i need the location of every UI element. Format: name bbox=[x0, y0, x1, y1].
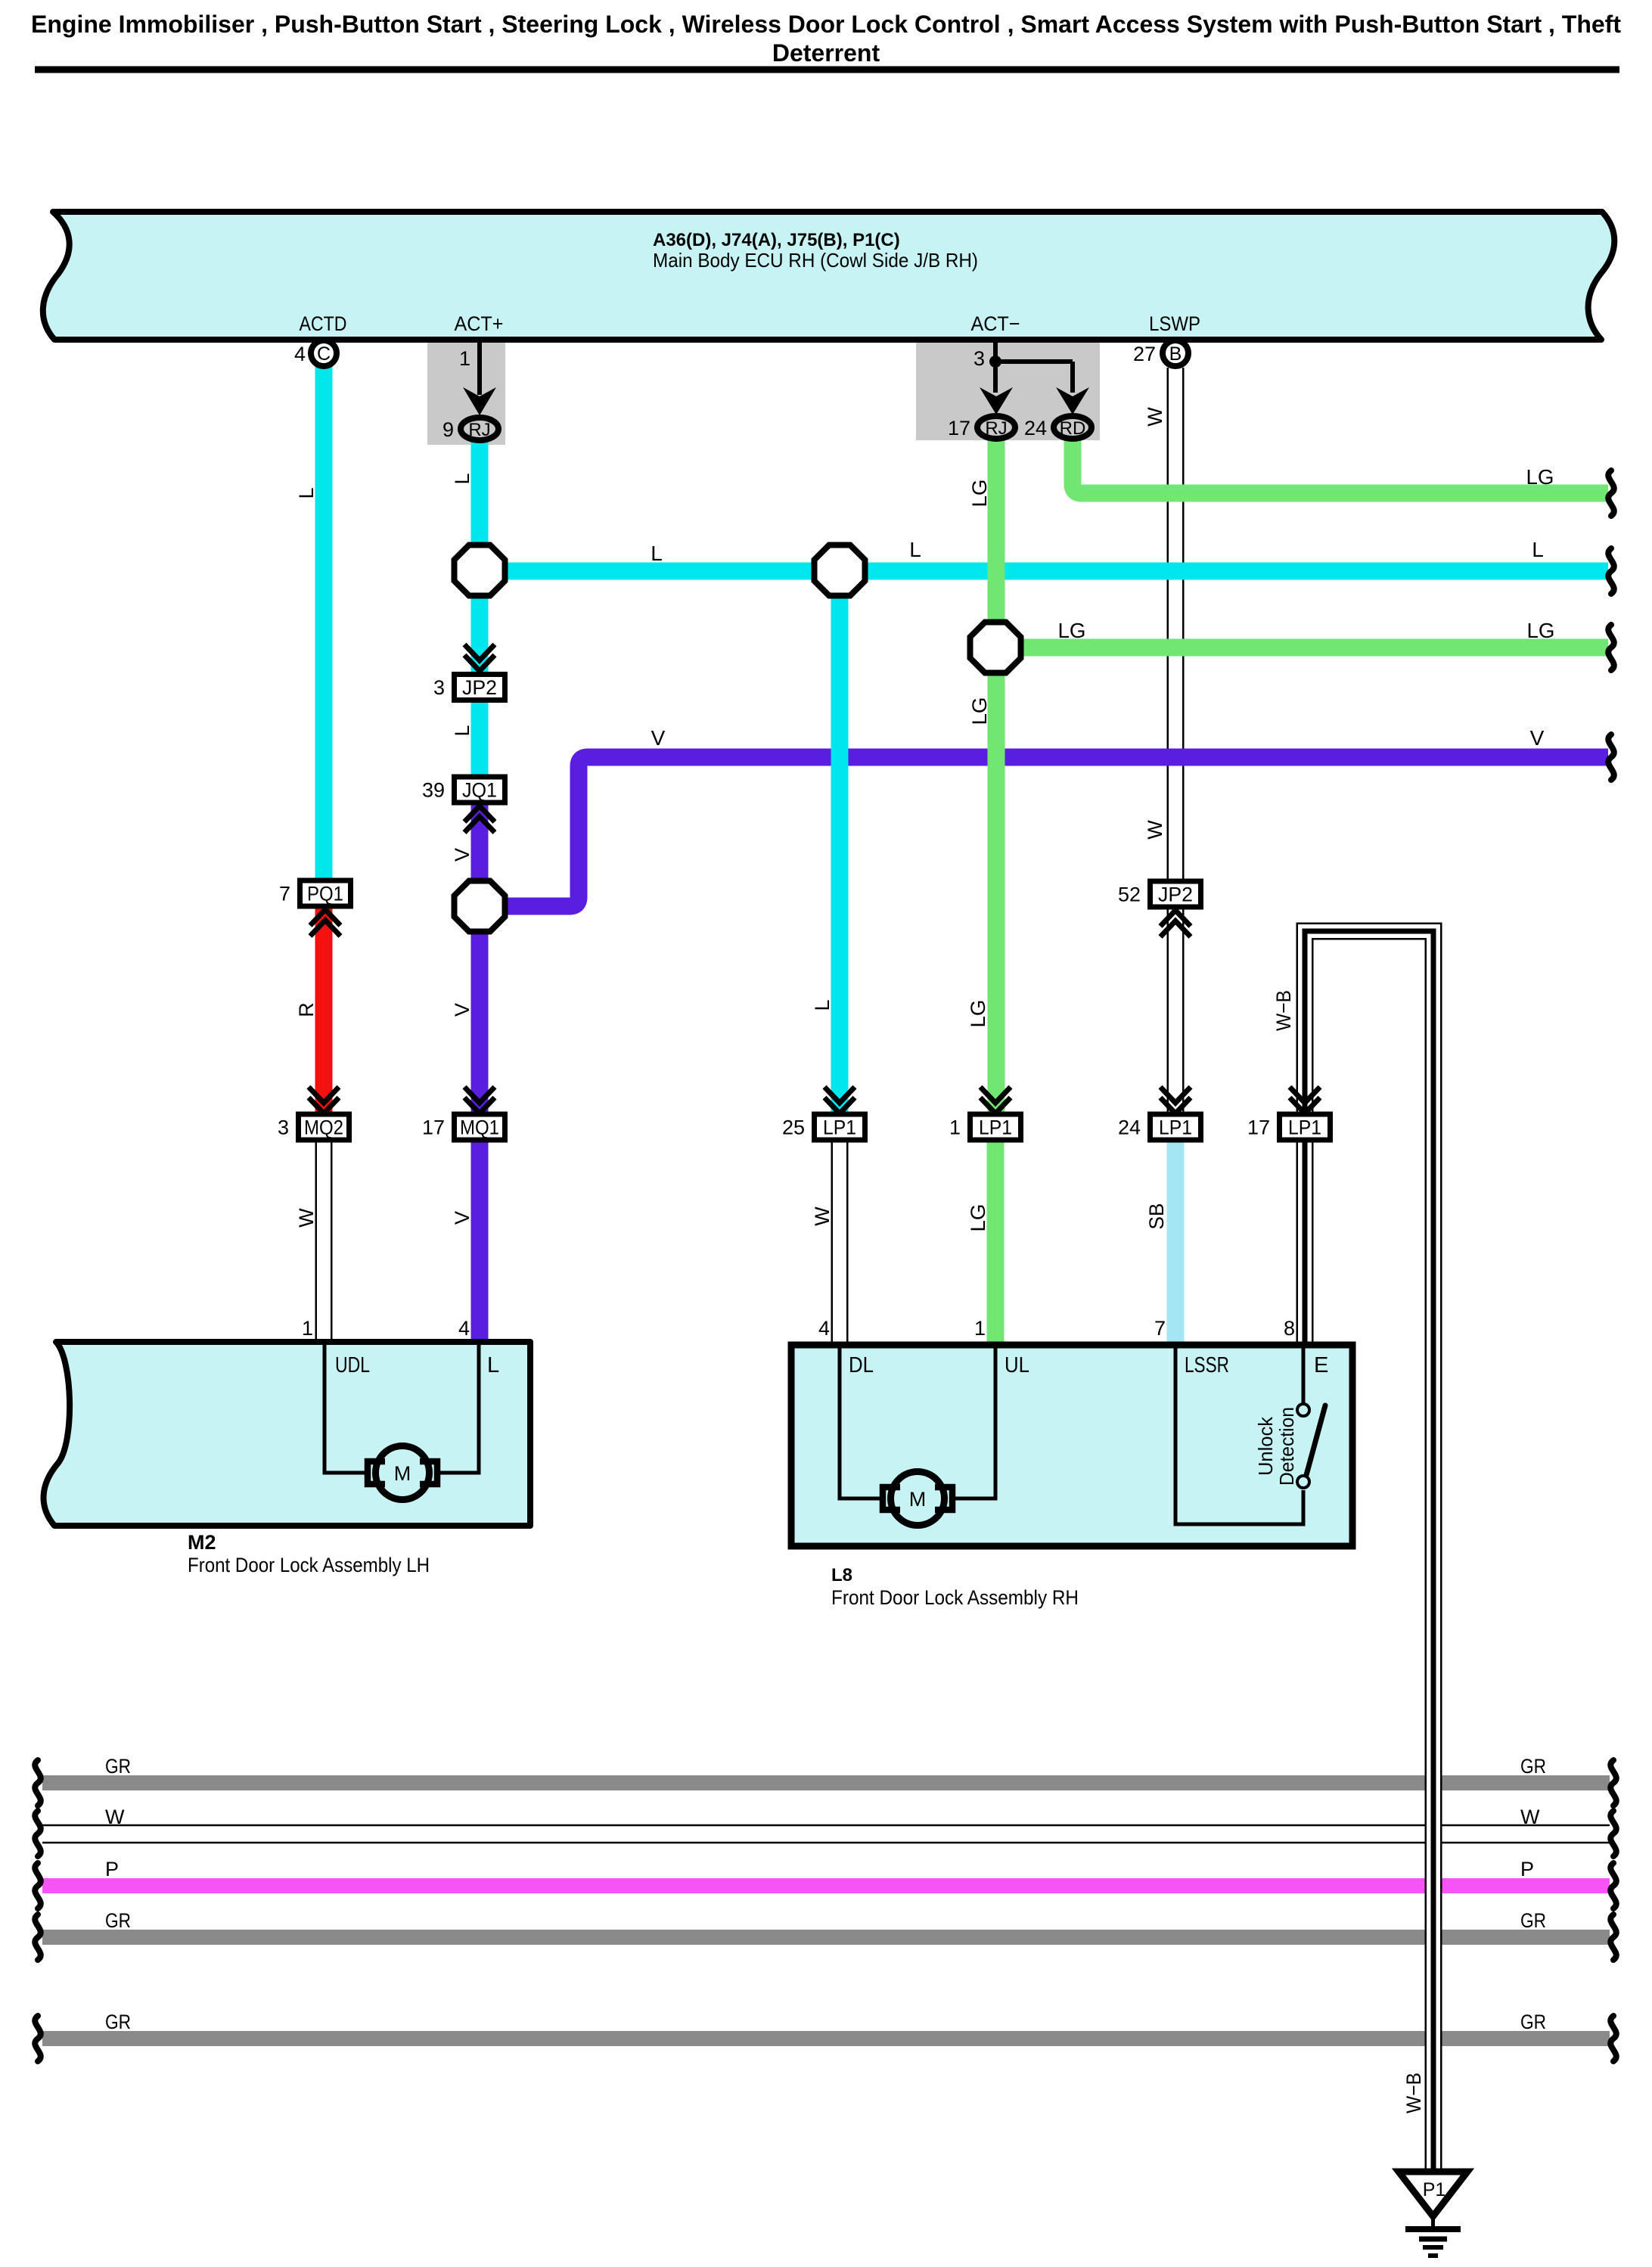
svg-text:M2: M2 bbox=[188, 1531, 216, 1554]
svg-text:JP2: JP2 bbox=[1158, 884, 1193, 906]
svg-text:W: W bbox=[1144, 820, 1166, 840]
svg-text:4: 4 bbox=[458, 1317, 470, 1340]
svg-text:GR: GR bbox=[1520, 1909, 1546, 1932]
wire R from PQ1 7 to MQ2 3 bbox=[315, 907, 333, 1116]
svg-text:JQ1: JQ1 bbox=[462, 779, 497, 802]
bus wire GR 2 bbox=[42, 1930, 1610, 1945]
wire L horizontal from splice to right edge bbox=[480, 563, 1608, 580]
svg-text:GR: GR bbox=[105, 1755, 131, 1778]
svg-text:B: B bbox=[1169, 343, 1182, 365]
svg-text:27: 27 bbox=[1133, 343, 1156, 365]
L8 internal wire LSSR to switch bbox=[1175, 1348, 1303, 1524]
svg-text:24: 24 bbox=[1024, 417, 1047, 439]
gray box ACT+ bbox=[427, 341, 505, 445]
arrow chevron into LP1 1 bbox=[980, 1087, 1011, 1103]
svg-text:LG: LG bbox=[1526, 465, 1554, 489]
svg-text:C: C bbox=[317, 343, 331, 365]
connector MQ1 17 bbox=[422, 1114, 505, 1140]
svg-text:UDL: UDL bbox=[335, 1353, 370, 1377]
svg-text:4: 4 bbox=[294, 343, 306, 365]
svg-text:3: 3 bbox=[973, 347, 985, 370]
wire W-B from LP1 17 to L8 pin 8 bbox=[1296, 1140, 1314, 1344]
svg-text:L: L bbox=[487, 1353, 499, 1377]
svg-text:7: 7 bbox=[1154, 1317, 1166, 1340]
wire W-B loop from LP1 17 up over and down to ground P1 bbox=[1305, 931, 1433, 2169]
svg-text:1: 1 bbox=[974, 1317, 986, 1340]
svg-text:39: 39 bbox=[422, 779, 445, 802]
break LG right mid bbox=[1608, 625, 1614, 670]
pin 4 C of ECU bbox=[294, 340, 337, 366]
splice D bbox=[455, 881, 505, 932]
svg-text:LP1: LP1 bbox=[823, 1116, 856, 1139]
break GR bus right bbox=[1610, 1915, 1616, 1960]
svg-text:LG: LG bbox=[1527, 619, 1555, 642]
svg-text:LG: LG bbox=[968, 480, 991, 508]
break GR bus right bbox=[1610, 2016, 1616, 2061]
svg-text:W−B: W−B bbox=[1272, 990, 1295, 1031]
svg-text:V: V bbox=[451, 1003, 474, 1017]
svg-text:PQ1: PQ1 bbox=[307, 883, 343, 905]
svg-text:A36(D), J74(A), J75(B), P1(C): A36(D), J74(A), J75(B), P1(C) bbox=[653, 230, 900, 250]
wire LG from splice to right edge bbox=[995, 639, 1608, 657]
svg-text:W: W bbox=[1520, 1806, 1540, 1828]
arrow chevron into MQ2 3 bbox=[309, 1087, 339, 1103]
svg-text:L: L bbox=[811, 999, 834, 1011]
svg-text:GR: GR bbox=[1520, 1755, 1546, 1778]
connector LP1 17 bbox=[1247, 1114, 1331, 1140]
block M2 Front Door Lock Assembly LH bbox=[44, 1342, 530, 1526]
connector oval RD 24 bbox=[1024, 416, 1091, 439]
svg-text:LP1: LP1 bbox=[1159, 1116, 1192, 1139]
svg-text:LG: LG bbox=[1058, 619, 1086, 642]
break LG right top bbox=[1608, 470, 1614, 516]
bus wire P bbox=[42, 1878, 1610, 1893]
svg-text:L: L bbox=[651, 542, 663, 565]
svg-text:P: P bbox=[1520, 1858, 1534, 1880]
svg-text:MQ2: MQ2 bbox=[304, 1116, 343, 1139]
svg-text:SB: SB bbox=[1145, 1203, 1168, 1230]
svg-text:W: W bbox=[1144, 407, 1166, 427]
svg-text:L: L bbox=[451, 473, 474, 484]
svg-text:Detection: Detection bbox=[1275, 1407, 1298, 1486]
break GR bus left bbox=[35, 1915, 41, 1960]
motor M of M2 bbox=[368, 1446, 437, 1500]
splice A bbox=[455, 545, 505, 596]
svg-text:GR: GR bbox=[105, 1909, 131, 1932]
ground symbol P1 bbox=[1399, 2172, 1467, 2256]
svg-text:1: 1 bbox=[459, 347, 470, 370]
break GR bus left bbox=[35, 1760, 41, 1806]
svg-text:LP1: LP1 bbox=[1288, 1116, 1321, 1139]
wire L from splice down to LP1 25 bbox=[831, 571, 849, 1116]
svg-text:25: 25 bbox=[782, 1116, 805, 1139]
svg-text:24: 24 bbox=[1118, 1116, 1141, 1139]
svg-text:Main Body ECU RH (Cowl Side J/: Main Body ECU RH (Cowl Side J/B RH) bbox=[653, 249, 978, 272]
svg-text:E: E bbox=[1314, 1353, 1328, 1377]
svg-text:LG: LG bbox=[967, 1204, 989, 1232]
svg-text:9: 9 bbox=[442, 418, 454, 441]
svg-text:M: M bbox=[394, 1462, 411, 1485]
connector oval RJ 17 bbox=[948, 416, 1015, 439]
svg-text:3: 3 bbox=[278, 1116, 289, 1139]
arrow chevron out of JP2 52 bbox=[1160, 911, 1191, 927]
svg-text:LG: LG bbox=[968, 697, 991, 725]
L8 internal wire DL to motor bbox=[840, 1348, 883, 1498]
svg-text:DL: DL bbox=[849, 1353, 874, 1377]
svg-text:17: 17 bbox=[1247, 1116, 1270, 1139]
wire V from JQ1 39 to splice to MQ1 17 bbox=[471, 803, 489, 1116]
svg-text:JP2: JP2 bbox=[462, 676, 497, 699]
svg-text:W: W bbox=[295, 1208, 318, 1228]
M2 internal wire motor to L bbox=[437, 1345, 479, 1473]
svg-text:17: 17 bbox=[948, 417, 970, 439]
Main Body ECU block A36 J74 J75 P1 bbox=[43, 212, 1615, 340]
svg-text:P1: P1 bbox=[1423, 2179, 1446, 2200]
label Unlock Detection bbox=[1254, 1407, 1298, 1486]
svg-text:1: 1 bbox=[302, 1317, 313, 1340]
svg-text:7: 7 bbox=[279, 883, 290, 905]
break GR bus right bbox=[1610, 1760, 1616, 1806]
svg-text:ACTD: ACTD bbox=[300, 312, 347, 335]
break L right bbox=[1608, 548, 1614, 594]
title rule bbox=[35, 67, 1619, 73]
wire pin 3 ACT- junction bbox=[989, 340, 1073, 393]
motor M of L8 bbox=[883, 1472, 952, 1526]
arrow chevron out of JQ1 39 bbox=[464, 806, 495, 822]
svg-text:3: 3 bbox=[433, 676, 445, 699]
arrow chevron into MQ1 17 bbox=[464, 1087, 495, 1103]
svg-text:W: W bbox=[811, 1206, 834, 1226]
wire pin 1 ACT+ to RJ bbox=[477, 340, 482, 395]
wire L from JP2 3 to JQ1 39 bbox=[471, 700, 489, 777]
svg-text:L: L bbox=[909, 538, 921, 561]
svg-text:4: 4 bbox=[818, 1317, 830, 1340]
wire W from JP2 52 to LP1 24 bbox=[1167, 908, 1185, 1116]
svg-text:LSWP: LSWP bbox=[1149, 312, 1200, 335]
wire W from MQ2 3 to M2 pin 1 bbox=[315, 1140, 333, 1344]
svg-text:LG: LG bbox=[967, 1000, 989, 1028]
svg-text:RJ: RJ bbox=[985, 418, 1007, 439]
wire V from MQ1 17 to M2 pin 4 bbox=[471, 1140, 489, 1344]
svg-text:W: W bbox=[105, 1806, 125, 1828]
svg-text:17: 17 bbox=[422, 1116, 445, 1139]
svg-text:Front Door Lock Assembly LH: Front Door Lock Assembly LH bbox=[188, 1554, 430, 1576]
connector JQ1 39 bbox=[422, 777, 505, 803]
break P bus left bbox=[35, 1863, 41, 1908]
svg-text:ACT−: ACT− bbox=[971, 312, 1020, 335]
svg-text:LP1: LP1 bbox=[979, 1116, 1012, 1139]
svg-text:MQ1: MQ1 bbox=[460, 1116, 499, 1139]
svg-text:RJ: RJ bbox=[468, 420, 490, 440]
splice B bbox=[815, 545, 865, 596]
wire V from splice corner to right edge bbox=[480, 757, 1608, 906]
L8 internal wire E to switch bbox=[1302, 1348, 1306, 1403]
svg-text:V: V bbox=[451, 848, 474, 862]
svg-text:Deterrent: Deterrent bbox=[772, 39, 880, 67]
break W bus right bbox=[1610, 1811, 1616, 1856]
connector LP1 24 bbox=[1118, 1114, 1201, 1140]
svg-text:L: L bbox=[1532, 538, 1544, 561]
bus wire GR 3 bbox=[42, 2031, 1610, 2046]
svg-text:M: M bbox=[909, 1488, 927, 1511]
arrow chevron into LP1 17 bbox=[1290, 1087, 1320, 1103]
svg-text:L: L bbox=[451, 725, 474, 736]
break W bus left bbox=[35, 1811, 41, 1856]
M2 label bbox=[188, 1531, 430, 1576]
arrow into RJ 17 bbox=[980, 387, 1013, 415]
bus wire W bbox=[42, 1825, 1610, 1843]
svg-text:L: L bbox=[295, 487, 318, 498]
svg-text:R: R bbox=[295, 1002, 318, 1017]
wire W from pin B 27 down to JP2 52 (white wire) bbox=[1167, 368, 1185, 880]
svg-text:ACT+: ACT+ bbox=[455, 312, 504, 335]
break P bus right bbox=[1610, 1863, 1616, 1908]
svg-text:V: V bbox=[1530, 726, 1545, 750]
M2 internal wire UDL to motor bbox=[324, 1345, 368, 1473]
connector LP1 25 bbox=[782, 1114, 865, 1140]
wire LG from RD 24 corner to right edge bbox=[1073, 440, 1608, 493]
svg-text:52: 52 bbox=[1118, 884, 1141, 906]
connector LP1 1 bbox=[949, 1114, 1021, 1140]
svg-text:Engine Immobiliser , Push-Butt: Engine Immobiliser , Push-Button Start ,… bbox=[31, 11, 1621, 38]
connector JP2 52 bbox=[1118, 881, 1201, 907]
connector oval RJ 9 bbox=[442, 418, 498, 441]
arrow into RD 24 bbox=[1056, 387, 1089, 415]
arrow chevron into LP1 24 bbox=[1160, 1087, 1191, 1103]
arrow into RJ 9 bbox=[463, 387, 496, 415]
wire L from splice to JP2 3 bbox=[471, 571, 489, 673]
L8 internal wire UL to motor bbox=[952, 1348, 995, 1498]
connector MQ2 3 bbox=[278, 1114, 349, 1140]
svg-text:Front Door Lock Assembly RH: Front Door Lock Assembly RH bbox=[831, 1586, 1079, 1609]
splice C bbox=[970, 623, 1021, 673]
gray box ACT- bbox=[916, 341, 1100, 440]
svg-text:W−B: W−B bbox=[1402, 2073, 1425, 2113]
arrow chevron into JP2 3 bbox=[464, 644, 495, 660]
switch unlock detection bbox=[1297, 1404, 1325, 1488]
svg-text:GR: GR bbox=[1520, 2011, 1546, 2033]
wire SB from LP1 24 to L8 pin 7 bbox=[1167, 1140, 1185, 1344]
title text bbox=[31, 11, 1621, 67]
svg-text:UL: UL bbox=[1005, 1353, 1029, 1377]
svg-text:1: 1 bbox=[949, 1116, 961, 1139]
arrow chevron into LP1 25 bbox=[824, 1087, 855, 1103]
svg-text:LSSR: LSSR bbox=[1185, 1353, 1229, 1377]
wire LG vertical from RJ 17 to LP1 1 bbox=[988, 440, 1005, 1116]
svg-text:8: 8 bbox=[1284, 1317, 1295, 1340]
break GR bus left bbox=[35, 2016, 41, 2061]
svg-text:V: V bbox=[651, 726, 666, 750]
wire L from RJ 9 to splice bbox=[471, 442, 489, 575]
svg-text:V: V bbox=[451, 1211, 474, 1225]
arrow chevron out of PQ1 7 bbox=[310, 910, 340, 926]
break V right bbox=[1608, 734, 1614, 780]
wire W from LP1 25 to L8 pin 4 bbox=[831, 1140, 849, 1344]
connector JP2 3 bbox=[433, 675, 505, 700]
block L8 Front Door Lock Assembly RH bbox=[791, 1345, 1352, 1546]
svg-text:P: P bbox=[105, 1858, 119, 1880]
svg-text:RD: RD bbox=[1060, 418, 1086, 439]
L8 label bbox=[831, 1565, 1079, 1609]
wire L from pin C 4 to PQ1 7 bbox=[315, 366, 333, 880]
bus wire GR 1 bbox=[42, 1775, 1610, 1790]
wire LG from LP1 1 to L8 pin 1 bbox=[987, 1140, 1005, 1344]
connector PQ1 7 bbox=[279, 880, 351, 906]
svg-text:L8: L8 bbox=[831, 1565, 852, 1585]
svg-text:GR: GR bbox=[105, 2011, 131, 2033]
ECU block title bbox=[653, 230, 978, 272]
svg-text:Unlock: Unlock bbox=[1254, 1416, 1277, 1476]
pin 27 B of ECU bbox=[1133, 340, 1188, 366]
